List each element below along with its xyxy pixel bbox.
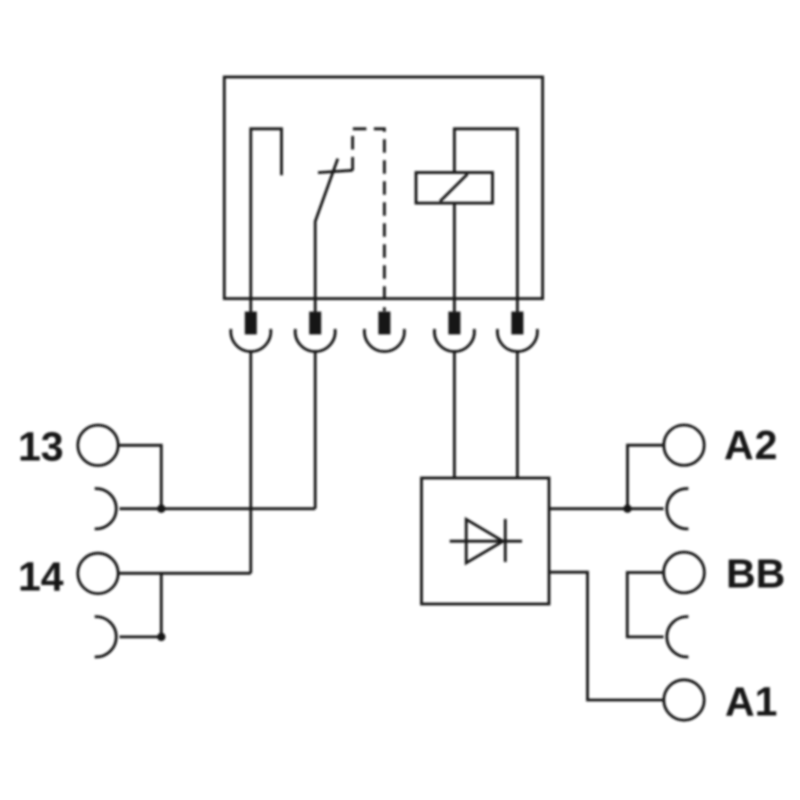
svg-text:A2: A2 xyxy=(724,422,778,468)
svg-text:BB: BB xyxy=(726,551,785,597)
svg-text:13: 13 xyxy=(18,424,64,470)
svg-text:14: 14 xyxy=(18,554,64,600)
svg-text:A1: A1 xyxy=(725,678,777,724)
